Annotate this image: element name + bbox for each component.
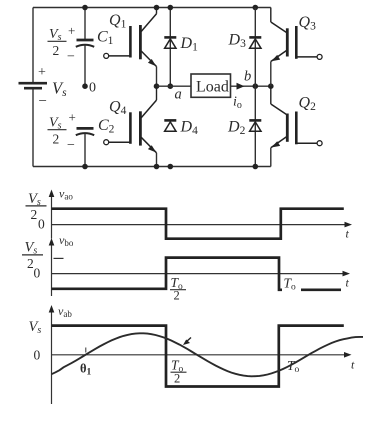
junction dot bottom rail Q4 leg xyxy=(154,164,160,170)
tick Vs/2 level plot2 xyxy=(54,257,64,259)
wire bottom rail xyxy=(33,166,271,168)
svg-text:vbo: vbo xyxy=(59,233,74,248)
plot vao vertical axis xyxy=(51,194,53,239)
wire Q1 emitter to node a xyxy=(156,67,158,87)
waveform vao xyxy=(52,209,344,239)
label Vs/2 plot1 xyxy=(26,191,47,222)
svg-text:vao: vao xyxy=(59,187,73,202)
svg-text:0: 0 xyxy=(38,217,45,232)
wire D2 leg xyxy=(254,86,256,166)
label To plot2 xyxy=(282,276,301,293)
wire left rail upper xyxy=(32,8,34,83)
junction dot bottom rail D2 leg xyxy=(253,164,259,170)
value label Vs/2 lower xyxy=(48,115,67,146)
svg-text:0: 0 xyxy=(34,266,41,281)
transistor Q1 xyxy=(104,8,157,67)
junction dot top rail C leg xyxy=(82,5,88,11)
svg-text:D4: D4 xyxy=(180,119,199,138)
junction dot top rail D1 leg xyxy=(168,5,174,11)
svg-text:Vs: Vs xyxy=(29,319,42,336)
svg-text:io: io xyxy=(233,95,242,112)
svg-text:Q1: Q1 xyxy=(109,12,127,31)
plot vab time axis xyxy=(52,354,347,356)
wire Q2 emitter to bottom rail xyxy=(270,148,272,167)
battery Vs xyxy=(19,83,48,88)
wire D3 leg xyxy=(254,8,256,87)
wire node a to load xyxy=(157,85,192,87)
diode D3 xyxy=(249,37,261,48)
label To/2 plot2 xyxy=(170,275,186,303)
plot vab vertical axis xyxy=(51,310,53,405)
load box xyxy=(191,74,231,97)
waveform vab fundamental sine xyxy=(52,333,364,376)
plot vao time axis xyxy=(52,224,348,226)
tick theta1 crossing xyxy=(85,348,87,353)
transistor Q2 xyxy=(271,86,322,148)
svg-text:Load: Load xyxy=(196,79,229,96)
value label Vs/2 upper xyxy=(48,27,67,58)
svg-text:+: + xyxy=(69,110,76,125)
junction dot top rail Q1 leg xyxy=(154,5,160,11)
svg-text:D2: D2 xyxy=(227,119,246,138)
plot vbo time axis xyxy=(52,273,346,275)
wire center leg upper xyxy=(84,8,86,40)
junction dot bottom rail C leg xyxy=(82,164,88,170)
wire Q4 emitter to bottom rail xyxy=(156,153,158,167)
svg-text:2: 2 xyxy=(31,207,38,222)
svg-text:D3: D3 xyxy=(228,32,247,51)
svg-text:Vs: Vs xyxy=(25,240,38,257)
capacitor C1 xyxy=(76,40,94,86)
node b junction dot Q leg xyxy=(268,83,274,89)
svg-text:b: b xyxy=(244,69,251,85)
svg-text:2: 2 xyxy=(53,131,60,146)
diode D4 xyxy=(164,120,176,131)
svg-text:C2: C2 xyxy=(98,117,115,136)
annotation arrow fundamental xyxy=(183,338,191,346)
svg-text:D1: D1 xyxy=(180,35,199,54)
svg-text:t: t xyxy=(346,227,350,241)
svg-text:Vs: Vs xyxy=(49,27,62,43)
waveform vab square xyxy=(52,326,344,387)
junction dot bottom rail D4 leg xyxy=(168,164,174,170)
wire load to node b with current arrow xyxy=(231,83,271,90)
node 0 junction dot xyxy=(82,83,88,89)
svg-text:−: − xyxy=(39,94,47,110)
svg-text:θ1: θ1 xyxy=(80,362,92,378)
plot vbo vertical axis xyxy=(51,243,53,297)
svg-text:C1: C1 xyxy=(97,29,114,48)
waveform vbo xyxy=(52,258,342,290)
svg-text:Q3: Q3 xyxy=(299,14,317,33)
svg-text:a: a xyxy=(175,87,182,103)
svg-text:0: 0 xyxy=(34,348,41,363)
label To/2 plot3 xyxy=(171,358,187,386)
node b junction dot D leg xyxy=(253,83,259,89)
label Vs/2 plot2 xyxy=(22,240,43,272)
transistor Q3 xyxy=(271,8,322,62)
svg-text:Q4: Q4 xyxy=(109,99,127,118)
svg-text:+: + xyxy=(68,23,75,38)
svg-text:Vs: Vs xyxy=(52,79,67,100)
node a junction dot D leg xyxy=(168,83,174,89)
svg-text:Vs: Vs xyxy=(49,115,62,131)
node a junction dot Q leg xyxy=(154,83,160,89)
svg-text:−: − xyxy=(67,50,75,65)
capacitor C2 xyxy=(76,128,94,166)
svg-text:0: 0 xyxy=(89,81,96,96)
svg-text:Q2: Q2 xyxy=(299,95,317,114)
svg-text:To: To xyxy=(284,276,297,293)
svg-text:t: t xyxy=(346,276,350,290)
junction dot top rail D3 leg xyxy=(253,5,259,11)
wire Q3 emitter to node b xyxy=(270,62,272,87)
wire left rail lower xyxy=(32,90,34,167)
svg-text:2: 2 xyxy=(53,43,60,58)
diode D2 xyxy=(249,120,261,131)
svg-text:2: 2 xyxy=(174,372,180,386)
svg-text:+: + xyxy=(38,65,46,80)
wire top rail xyxy=(33,7,271,9)
svg-text:vab: vab xyxy=(58,304,72,319)
transistor Q4 xyxy=(104,86,157,153)
wire D1 leg xyxy=(169,8,171,87)
diode D1 xyxy=(164,37,176,48)
svg-text:−: − xyxy=(67,138,75,153)
svg-text:2: 2 xyxy=(174,289,180,303)
svg-text:t: t xyxy=(351,358,355,372)
